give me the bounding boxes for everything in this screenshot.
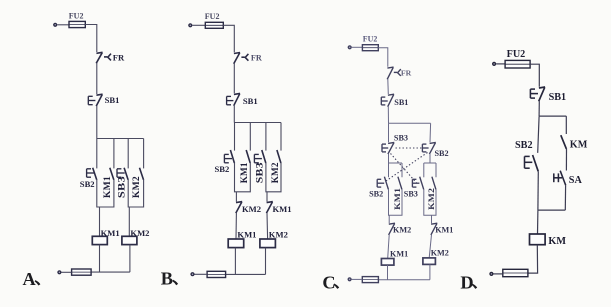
wire (234, 248, 236, 275)
pushbutton actuator SB3 (B) (254, 154, 262, 162)
wire (96, 63, 98, 94)
coil KM1 (B) (228, 239, 244, 248)
wire (128, 179, 143, 207)
wire (429, 235, 431, 258)
contact (NO) KM2 (C) (432, 177, 436, 190)
wire (129, 245, 131, 273)
thermal element hook FR (B) (241, 54, 248, 61)
wire (539, 115, 566, 117)
coil KM2 (C) (423, 258, 436, 265)
wire (389, 162, 403, 164)
coil KM1 (A) (92, 236, 107, 244)
svg-text:KM1: KM1 (435, 226, 453, 235)
wire (97, 138, 144, 140)
wire (352, 46, 363, 48)
pushbutton actuator SB1 (A) (88, 96, 95, 104)
svg-text:SB2: SB2 (80, 179, 95, 189)
contact (NC) KM1 interlock (B) (266, 202, 272, 214)
svg-text:SB3: SB3 (118, 176, 128, 198)
wire (97, 179, 114, 207)
wire (431, 215, 433, 223)
selector switch SA (D) (554, 171, 566, 186)
wire (378, 279, 430, 281)
svg-text:FU2: FU2 (507, 49, 526, 60)
wire (234, 122, 281, 124)
svg-text:KM2: KM2 (431, 249, 449, 258)
svg-text:SB3: SB3 (256, 162, 266, 183)
wire (378, 48, 388, 67)
svg-text:B: B (161, 269, 173, 289)
wire (387, 106, 389, 123)
wire (235, 163, 251, 192)
terminal node A-top (53, 23, 57, 27)
wire (388, 235, 390, 259)
wire (565, 149, 567, 171)
svg-text:KM1: KM1 (273, 204, 292, 214)
svg-text:SA: SA (569, 175, 583, 186)
dashed linkage SB3 NC to SB3 NO (391, 154, 418, 185)
contact (NO) KM1 (C) (398, 177, 402, 190)
wire (99, 245, 101, 273)
dashed linkage SB3/SB2 horizontal (396, 147, 426, 149)
terminal node D-bottom (489, 272, 493, 276)
label comma after D (471, 284, 477, 289)
wire (435, 163, 437, 177)
contact (NO) SB2 (D) (533, 155, 539, 171)
contact (NC) SB1 (A) (96, 94, 102, 106)
wire (537, 171, 539, 210)
wire (233, 64, 235, 94)
label comma after B (172, 280, 178, 285)
svg-text:SB2: SB2 (515, 140, 533, 151)
wire (233, 105, 235, 122)
contact (NC) SB1 (C) (388, 94, 394, 107)
wire (530, 64, 539, 87)
contact (NO) SB2 (B) (230, 150, 234, 163)
svg-text:C: C (322, 272, 335, 292)
svg-text:D: D (460, 272, 473, 292)
pushbutton actuator SB2 (A) (87, 169, 95, 177)
pushbutton actuator SB3 NO (C) (412, 179, 419, 187)
wire (266, 192, 268, 202)
contact (NO) KM (D) (561, 135, 567, 149)
wire (96, 106, 98, 139)
pushbutton actuator SB1 (C) (381, 97, 387, 105)
contact (NC) KM1 interlock (C) (431, 223, 437, 235)
svg-text:KM2: KM2 (271, 162, 281, 183)
wire (388, 123, 390, 142)
wire (429, 123, 432, 142)
pushbutton actuator SB2 NO (C) (377, 179, 384, 187)
wire (389, 189, 403, 215)
wire (388, 215, 390, 223)
svg-text:SB2: SB2 (369, 190, 383, 199)
svg-text:KM: KM (548, 236, 566, 247)
fuse bottom (A) (72, 269, 92, 275)
pushbutton actuator SB2 (B) (224, 154, 232, 162)
svg-text:SB1: SB1 (243, 96, 258, 106)
svg-text:FU2: FU2 (205, 12, 220, 21)
wire (387, 265, 389, 280)
contact (NC) KM2 interlock (B) (236, 202, 242, 214)
wire (538, 209, 565, 211)
svg-text:SB2: SB2 (435, 149, 449, 158)
wire (528, 245, 538, 273)
pushbutton actuator SB3 (A) (117, 169, 125, 177)
coil KM1 (C) (381, 259, 394, 266)
contact (NO) KM2 (A) (140, 168, 144, 180)
wire (280, 123, 282, 151)
svg-text:FU2: FU2 (69, 11, 84, 20)
wire (565, 116, 567, 134)
svg-text:FR: FR (401, 69, 412, 78)
wire (194, 273, 207, 275)
wire (265, 123, 267, 151)
contact (NC) SB2 (C) (429, 142, 435, 154)
pushbutton actuator SB1 (D) (530, 89, 538, 98)
wire (266, 213, 269, 239)
wire (85, 25, 97, 53)
wire (265, 248, 267, 275)
wire (57, 24, 69, 26)
wire (389, 122, 431, 124)
contact (NC) SB1 (B) (234, 93, 240, 105)
contact (NC) SB1 (D) (539, 87, 545, 101)
wire (538, 116, 539, 153)
svg-text:SB3: SB3 (404, 190, 418, 199)
svg-text:SB1: SB1 (105, 95, 120, 105)
label comma after C (333, 284, 339, 289)
svg-text:KM1: KM1 (103, 176, 113, 198)
pushbutton actuator SB2 (C) (422, 144, 428, 152)
svg-text:SB3: SB3 (394, 134, 408, 143)
wire (429, 154, 431, 163)
thermal element hook FR (C) (394, 69, 401, 76)
wire (387, 79, 390, 94)
svg-text:KM1: KM1 (390, 250, 408, 259)
svg-text:KM1: KM1 (392, 188, 402, 210)
contact (NO) KM1 (A) (110, 168, 114, 180)
wire (249, 123, 251, 151)
wire (564, 185, 566, 210)
wire (352, 278, 363, 280)
svg-text:KM2: KM2 (242, 204, 261, 214)
wire (266, 163, 281, 192)
terminal node C-bottom (348, 277, 352, 281)
pushbutton actuator SB3 (C) (382, 144, 388, 152)
svg-text:FU2: FU2 (363, 34, 378, 43)
wire (423, 163, 425, 177)
wire (429, 264, 431, 279)
wire (192, 24, 205, 26)
contact (NO) KM1 (B) (246, 150, 250, 163)
thermal element hook FR (A) (104, 54, 111, 61)
contact (NO) KM2 (B) (277, 150, 281, 163)
terminal node B-top (188, 23, 192, 27)
wire (127, 139, 129, 169)
svg-text:FR: FR (113, 52, 125, 62)
fuse FU2 (C) (362, 45, 378, 51)
contact (NC) KM2 interlock (C) (389, 223, 395, 235)
wire (223, 25, 234, 52)
contact (NO) SB2 (A) (93, 168, 97, 180)
wire (96, 139, 98, 169)
contact (NO) SB3 (A) (124, 168, 128, 180)
coil KM (D) (530, 234, 546, 245)
wire (234, 123, 236, 151)
wire (424, 189, 436, 215)
contact (NO) SB3 (C) (420, 177, 424, 190)
wire (113, 139, 115, 169)
pushbutton actuator SB1 (B) (227, 96, 234, 104)
contact (NC) FR (B) (234, 53, 240, 64)
svg-text:KM2: KM2 (269, 230, 288, 240)
svg-text:SB2: SB2 (215, 164, 230, 174)
wire (61, 271, 71, 273)
label comma after A (35, 280, 41, 285)
fuse FU2 (D) (505, 60, 530, 68)
terminal node C-top (348, 45, 352, 49)
wire (401, 163, 403, 177)
wire (226, 273, 266, 275)
svg-text:FR: FR (251, 54, 262, 63)
wire (388, 163, 390, 177)
svg-text:KM2: KM2 (426, 187, 436, 209)
contact (NO) SB3 (B) (262, 150, 266, 163)
contact (NO) SB2 (C) (384, 177, 388, 190)
svg-text:KM2: KM2 (393, 226, 411, 235)
svg-text:SB1: SB1 (394, 98, 408, 107)
pushbutton actuator SB2 (D) (525, 156, 533, 168)
contact (NC) FR (A) (96, 52, 102, 63)
wire (235, 213, 237, 239)
wire (493, 273, 503, 275)
svg-text:SB1: SB1 (549, 92, 567, 103)
svg-text:KM2: KM2 (132, 176, 142, 198)
dashed linkage SB2 NC to SB2 NO (385, 153, 428, 183)
coil KM2 (A) (122, 236, 137, 244)
fuse bottom (B) (207, 271, 226, 277)
wire (99, 207, 101, 236)
wire (388, 154, 390, 163)
wire (128, 207, 130, 236)
wire (538, 101, 540, 116)
fuse bottom (D) (503, 269, 528, 276)
wire (496, 63, 505, 65)
coil KM2 (B) (260, 239, 276, 248)
fuse FU2 (A) (69, 21, 85, 27)
fuse FU2 (B) (205, 22, 223, 28)
contact (NC) FR (C) (387, 67, 393, 79)
terminal node B-top2 (190, 272, 194, 276)
terminal node D-top (492, 62, 496, 66)
svg-text:KM1: KM1 (240, 162, 250, 183)
wire (143, 139, 145, 169)
wire (537, 210, 539, 234)
svg-text:A: A (23, 269, 37, 289)
terminal node A-bottom (57, 270, 61, 274)
svg-text:KM: KM (570, 140, 588, 151)
contact (NC) SB3 (C) (388, 142, 394, 154)
fuse bottom (C) (362, 277, 378, 283)
wire (235, 192, 237, 202)
svg-text:KM1: KM1 (237, 230, 256, 240)
wire (424, 162, 436, 164)
wire (91, 271, 130, 273)
